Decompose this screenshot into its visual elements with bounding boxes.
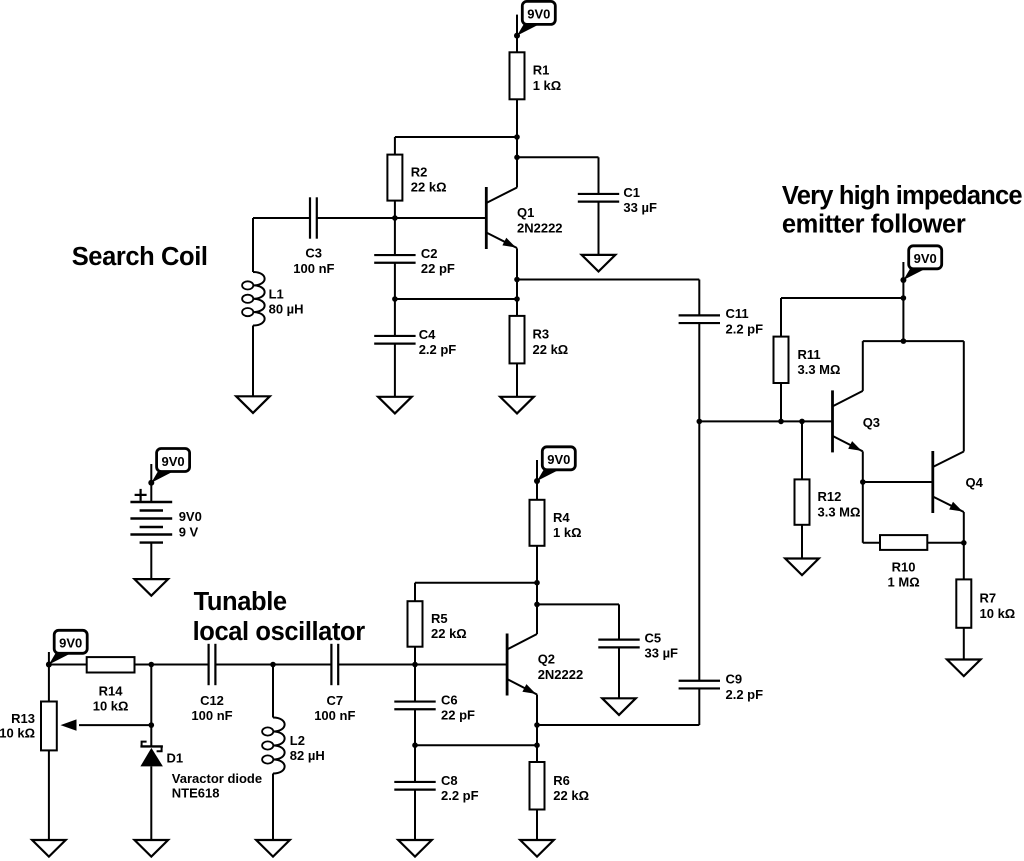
svg-text:R11: R11 bbox=[798, 347, 821, 362]
label R5 bbox=[431, 611, 467, 641]
wire bbox=[618, 647, 620, 698]
wire bbox=[394, 137, 396, 155]
wire bbox=[598, 202, 600, 255]
resistor R6 bbox=[530, 762, 545, 810]
label C11 bbox=[726, 306, 764, 336]
junction bbox=[901, 338, 907, 344]
wire bbox=[698, 688, 700, 725]
svg-text:emitter follower: emitter follower bbox=[782, 211, 966, 239]
ground bbox=[135, 579, 169, 596]
wire bbox=[536, 460, 538, 500]
svg-text:22 pF: 22 pF bbox=[421, 261, 455, 276]
svg-text:R4: R4 bbox=[553, 510, 570, 525]
capacitor C6 bbox=[394, 702, 435, 710]
wire bbox=[394, 201, 396, 256]
wire bbox=[863, 481, 933, 483]
capacitor C3 bbox=[310, 197, 317, 238]
diode D1 (varactor) bbox=[140, 742, 163, 767]
junction bbox=[514, 277, 520, 283]
svg-text:10 kΩ: 10 kΩ bbox=[93, 699, 129, 714]
junction bbox=[534, 580, 540, 586]
svg-text:R2: R2 bbox=[411, 164, 428, 179]
wire bbox=[699, 420, 832, 422]
wire bbox=[618, 604, 620, 639]
wire bbox=[414, 745, 416, 782]
transistor Q2 bbox=[507, 634, 537, 696]
svg-text:9V0: 9V0 bbox=[179, 509, 202, 524]
svg-text:22 kΩ: 22 kΩ bbox=[431, 626, 467, 641]
label R6 bbox=[553, 773, 589, 803]
label C9 bbox=[726, 672, 764, 702]
svg-text:9V0: 9V0 bbox=[914, 251, 937, 266]
label C1 bbox=[623, 185, 657, 215]
wire bbox=[963, 341, 965, 451]
svg-text:C1: C1 bbox=[623, 185, 640, 200]
wire bbox=[516, 248, 518, 299]
wire bbox=[253, 217, 310, 219]
wire bbox=[215, 664, 331, 666]
wire bbox=[516, 15, 518, 53]
wire bbox=[394, 263, 396, 336]
wire bbox=[801, 421, 803, 479]
wire bbox=[150, 543, 152, 580]
junction bbox=[46, 662, 52, 668]
wire bbox=[252, 218, 254, 272]
svg-text:R3: R3 bbox=[533, 327, 550, 342]
title Tunable local oscillator bbox=[193, 588, 366, 646]
power flag 9V0 (right) bbox=[900, 246, 941, 283]
label R12 bbox=[818, 489, 861, 519]
label C5 bbox=[645, 631, 679, 661]
junction bbox=[514, 134, 520, 140]
junction bbox=[514, 155, 520, 161]
label R14 bbox=[93, 683, 129, 713]
title Very high impedance emitter follower bbox=[782, 182, 1023, 239]
wire bbox=[780, 383, 782, 421]
wire bbox=[252, 326, 254, 397]
power flag 9V0 (oscillator) bbox=[534, 447, 575, 484]
label Q1 bbox=[517, 205, 563, 236]
label R1 bbox=[533, 63, 562, 93]
svg-text:3.3 MΩ: 3.3 MΩ bbox=[798, 362, 841, 377]
svg-text:1 kΩ: 1 kΩ bbox=[533, 78, 562, 93]
label R10 bbox=[888, 559, 920, 589]
svg-text:82 µH: 82 µH bbox=[290, 748, 325, 763]
svg-text:C7: C7 bbox=[326, 693, 343, 708]
resistor R3 bbox=[510, 316, 525, 364]
wire bbox=[927, 542, 964, 544]
wire bbox=[317, 217, 486, 219]
svg-text:22 kΩ: 22 kΩ bbox=[411, 180, 447, 195]
svg-text:2.2 pF: 2.2 pF bbox=[419, 342, 457, 357]
capacitor C8 bbox=[394, 782, 435, 790]
svg-text:2.2 pF: 2.2 pF bbox=[441, 788, 479, 803]
capacitor C2 bbox=[374, 255, 415, 263]
wire bbox=[135, 664, 209, 666]
wire bbox=[537, 603, 619, 605]
svg-text:R13: R13 bbox=[11, 711, 35, 726]
svg-text:C3: C3 bbox=[305, 246, 322, 261]
junction bbox=[534, 742, 540, 748]
svg-text:Varactor diode: Varactor diode bbox=[172, 771, 262, 786]
label C3 bbox=[293, 246, 334, 276]
transistor Q4 bbox=[933, 451, 964, 513]
svg-text:9 V: 9 V bbox=[179, 524, 199, 539]
svg-text:Very high impedance: Very high impedance bbox=[782, 182, 1023, 210]
wire bbox=[862, 482, 864, 543]
wire bbox=[698, 323, 700, 681]
svg-text:C2: C2 bbox=[421, 246, 438, 261]
label D1 bbox=[167, 751, 263, 801]
capacitor C9 bbox=[679, 681, 720, 689]
ground bbox=[582, 255, 616, 272]
wire bbox=[516, 363, 518, 396]
svg-text:R7: R7 bbox=[980, 591, 997, 606]
power flag 9V0 (left) bbox=[46, 630, 87, 667]
wire bbox=[862, 451, 864, 482]
svg-text:1 kΩ: 1 kΩ bbox=[553, 525, 582, 540]
wire bbox=[395, 298, 517, 300]
potentiometer wiper arrow bbox=[61, 719, 77, 730]
label C12 bbox=[191, 693, 232, 723]
inductor L2 bbox=[262, 718, 285, 774]
label R2 bbox=[411, 164, 447, 194]
svg-text:local oscillator: local oscillator bbox=[193, 618, 366, 646]
svg-text:R1: R1 bbox=[533, 63, 550, 78]
ground bbox=[135, 840, 169, 857]
svg-text:10 kΩ: 10 kΩ bbox=[980, 606, 1016, 621]
svg-text:Q2: Q2 bbox=[538, 652, 555, 667]
wire bbox=[598, 157, 600, 194]
svg-text:Q3: Q3 bbox=[863, 415, 880, 430]
wire bbox=[150, 665, 152, 747]
resistor R10 bbox=[880, 535, 927, 550]
wire bbox=[395, 136, 517, 138]
transistor Q1 bbox=[486, 187, 517, 249]
svg-text:D1: D1 bbox=[167, 751, 184, 766]
resistor R2 bbox=[387, 155, 402, 201]
wire bbox=[863, 340, 964, 342]
label C2 bbox=[421, 246, 455, 276]
svg-text:C5: C5 bbox=[645, 631, 662, 646]
svg-text:3.3 MΩ: 3.3 MΩ bbox=[818, 504, 861, 519]
wire bbox=[780, 298, 782, 337]
label R13 bbox=[0, 711, 35, 740]
svg-text:100 nF: 100 nF bbox=[191, 708, 232, 723]
resistor R5 bbox=[408, 601, 423, 647]
wire bbox=[517, 156, 599, 158]
svg-text:C9: C9 bbox=[726, 672, 743, 687]
wire bbox=[338, 664, 507, 666]
wire bbox=[963, 628, 965, 660]
label C6 bbox=[441, 692, 475, 722]
svg-text:9V0: 9V0 bbox=[547, 452, 570, 467]
svg-text:33 µF: 33 µF bbox=[645, 646, 679, 661]
wire bbox=[781, 297, 903, 299]
svg-text:Q4: Q4 bbox=[966, 475, 984, 490]
battery BT1 9V bbox=[130, 489, 172, 543]
junction bbox=[697, 419, 703, 425]
ground bbox=[398, 840, 432, 857]
ground bbox=[32, 840, 66, 857]
svg-text:NTE618: NTE618 bbox=[172, 785, 220, 800]
svg-text:L1: L1 bbox=[269, 286, 284, 301]
svg-text:R6: R6 bbox=[553, 773, 570, 788]
wire bbox=[862, 341, 864, 391]
svg-text:C8: C8 bbox=[441, 773, 458, 788]
svg-text:R10: R10 bbox=[892, 559, 916, 574]
svg-text:10 kΩ: 10 kΩ bbox=[0, 726, 35, 741]
label Q2 bbox=[538, 652, 584, 683]
label battery bbox=[179, 509, 202, 539]
resistor R1 bbox=[510, 52, 525, 99]
junction bbox=[901, 295, 907, 301]
wire bbox=[536, 725, 538, 762]
svg-text:22 kΩ: 22 kΩ bbox=[553, 788, 589, 803]
svg-text:Search Coil: Search Coil bbox=[72, 243, 208, 271]
svg-text:9V0: 9V0 bbox=[59, 636, 82, 651]
wire bbox=[414, 709, 416, 745]
svg-text:2N2222: 2N2222 bbox=[517, 221, 563, 236]
wire bbox=[394, 344, 396, 397]
junction bbox=[860, 479, 866, 485]
ground bbox=[378, 397, 412, 414]
label Q3 bbox=[863, 415, 880, 430]
resistor R4 bbox=[530, 500, 545, 546]
junction bbox=[961, 540, 967, 546]
label Q4 bbox=[966, 475, 984, 490]
ground bbox=[520, 840, 554, 857]
wire bbox=[536, 546, 538, 634]
inductor L1 bbox=[242, 272, 265, 326]
junction bbox=[412, 662, 418, 668]
svg-text:Q1: Q1 bbox=[517, 205, 534, 220]
label C7 bbox=[314, 693, 355, 723]
svg-text:2.2 pF: 2.2 pF bbox=[726, 321, 764, 336]
wire bbox=[536, 810, 538, 841]
junction bbox=[778, 419, 784, 425]
svg-text:Tunable: Tunable bbox=[194, 588, 287, 616]
label R4 bbox=[553, 510, 582, 540]
wire bbox=[537, 724, 699, 726]
wire bbox=[272, 665, 274, 718]
wire bbox=[801, 525, 803, 559]
wire bbox=[79, 724, 151, 726]
svg-text:R14: R14 bbox=[99, 683, 124, 698]
ground bbox=[785, 559, 819, 576]
wire bbox=[415, 744, 537, 746]
capacitor C11 bbox=[679, 315, 720, 323]
svg-text:80 µH: 80 µH bbox=[269, 302, 304, 317]
junction bbox=[799, 419, 805, 425]
svg-text:2.2 pF: 2.2 pF bbox=[726, 687, 764, 702]
resistor R13 bbox=[41, 702, 57, 751]
junction bbox=[149, 662, 155, 668]
svg-text:C11: C11 bbox=[726, 306, 749, 321]
capacitor C4 bbox=[374, 336, 415, 344]
wire bbox=[536, 695, 538, 726]
capacitor C1 bbox=[578, 194, 619, 202]
junction bbox=[534, 602, 540, 608]
power flag 9V0 (top) bbox=[514, 1, 555, 38]
svg-text:100 nF: 100 nF bbox=[293, 261, 334, 276]
ground bbox=[500, 397, 534, 414]
wire bbox=[698, 280, 700, 316]
svg-text:2N2222: 2N2222 bbox=[538, 667, 584, 682]
capacitor C5 bbox=[598, 640, 639, 648]
wire bbox=[863, 542, 880, 544]
junction bbox=[392, 215, 398, 221]
wire bbox=[48, 750, 50, 840]
junction bbox=[412, 742, 418, 748]
label C8 bbox=[441, 773, 479, 803]
resistor R11 bbox=[774, 337, 789, 383]
junction bbox=[514, 296, 520, 302]
wire bbox=[517, 279, 699, 281]
capacitor C12 bbox=[209, 644, 216, 685]
junction bbox=[149, 722, 155, 728]
transistor Q3 bbox=[833, 390, 863, 452]
label R7 bbox=[980, 591, 1016, 621]
label L1 bbox=[269, 286, 304, 316]
label R3 bbox=[533, 327, 569, 357]
wire bbox=[150, 464, 152, 502]
label R11 bbox=[798, 347, 841, 377]
wire bbox=[48, 652, 50, 702]
svg-text:L2: L2 bbox=[290, 733, 305, 748]
wire bbox=[414, 665, 416, 702]
wire bbox=[414, 583, 416, 602]
wire bbox=[272, 774, 274, 841]
wire bbox=[963, 543, 965, 580]
label C4 bbox=[419, 327, 457, 357]
resistor R14 bbox=[87, 657, 135, 672]
svg-text:R12: R12 bbox=[818, 489, 842, 504]
svg-text:22 kΩ: 22 kΩ bbox=[533, 342, 569, 357]
svg-text:22 pF: 22 pF bbox=[441, 708, 475, 723]
svg-text:9V0: 9V0 bbox=[162, 454, 185, 469]
label L2 bbox=[290, 733, 325, 763]
svg-text:C12: C12 bbox=[200, 693, 224, 708]
svg-text:1 MΩ: 1 MΩ bbox=[888, 575, 920, 590]
wire bbox=[49, 664, 87, 666]
wire bbox=[516, 299, 518, 316]
power flag 9V0 (battery) bbox=[148, 449, 189, 486]
resistor R7 bbox=[956, 579, 971, 627]
wire bbox=[963, 512, 965, 543]
ground bbox=[602, 698, 636, 715]
junction bbox=[392, 296, 398, 302]
svg-text:C6: C6 bbox=[441, 692, 458, 707]
svg-text:9V0: 9V0 bbox=[527, 7, 550, 22]
title Search Coil bbox=[72, 243, 208, 271]
wire bbox=[414, 647, 416, 665]
capacitor C7 bbox=[331, 644, 338, 685]
wire bbox=[414, 790, 416, 840]
ground bbox=[256, 840, 290, 857]
svg-text:33 µF: 33 µF bbox=[623, 200, 657, 215]
svg-text:R5: R5 bbox=[431, 611, 448, 626]
wire bbox=[415, 582, 537, 584]
wire bbox=[150, 766, 152, 840]
resistor R12 bbox=[795, 479, 810, 524]
svg-text:100 nF: 100 nF bbox=[314, 708, 355, 723]
wire bbox=[516, 99, 518, 187]
ground bbox=[947, 660, 981, 677]
svg-text:C4: C4 bbox=[419, 327, 436, 342]
junction bbox=[534, 722, 540, 728]
junction bbox=[270, 662, 276, 668]
ground bbox=[236, 396, 270, 413]
wire bbox=[902, 262, 904, 341]
